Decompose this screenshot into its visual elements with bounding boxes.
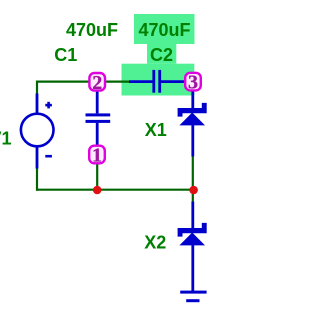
wire left vertical upper (top rail corner down to V1 lead): [36, 81, 38, 95]
C1 top lead: [96, 91, 99, 113]
V1 minus mark: [45, 155, 52, 158]
wire from right junction down to diode X2: [192, 190, 194, 203]
X2 anode triangle: [179, 233, 205, 246]
V1 circle body: [21, 114, 54, 147]
node 3 bubble: [185, 72, 201, 94]
node 2 bubble: [89, 72, 105, 94]
wire from diode X1 down to right junction: [192, 156, 194, 190]
highlight background for C2 value label: [134, 14, 195, 44]
highlight background for C2 name label: [147, 44, 176, 64]
svg-text:470uF: 470uF: [139, 20, 191, 40]
voltage source V1: [21, 94, 54, 169]
X1 bottom lead: [191, 125, 194, 157]
C2 right lead: [161, 80, 185, 83]
svg-text:1: 1: [92, 145, 102, 167]
wire from node 1 down to bottom rail: [96, 164, 98, 190]
C1 top plate: [86, 113, 111, 116]
V1 plus mark: [45, 104, 52, 107]
svg-text:2: 2: [92, 72, 102, 94]
X2 top lead: [191, 202, 194, 231]
X1 anode triangle: [179, 113, 205, 126]
wire bottom rail: [36, 189, 194, 191]
wire top rail from V1 to node 2: [36, 80, 89, 82]
junction dot left (C1 to bottom rail): [93, 186, 102, 195]
node 1 bubble: [89, 145, 105, 167]
C2 left lead: [129, 80, 153, 83]
wire left vertical lower (V1 lead down to bottom rail): [36, 168, 38, 191]
C1 bottom plate: [86, 120, 111, 123]
capacitor C1: [86, 91, 111, 146]
junction dot right (X1/X2 to bottom rail): [189, 186, 198, 195]
svg-text:3: 3: [188, 72, 198, 94]
diode X1 (zener): [178, 91, 207, 157]
ground top bar: [180, 291, 206, 294]
svg-text:X1: X1: [145, 120, 167, 140]
C2 left plate: [152, 70, 155, 93]
X1 cathode bar with bent ends: [178, 103, 207, 117]
V1 top lead: [36, 94, 39, 114]
X2 bottom lead: [191, 245, 194, 292]
C1 bottom lead: [96, 123, 99, 146]
X1 top lead: [191, 91, 194, 110]
ground symbol: [180, 291, 206, 303]
svg-text:470uF: 470uF: [66, 20, 118, 40]
X2 cathode bar with bent ends: [178, 223, 207, 237]
svg-text:X2: X2: [144, 233, 166, 253]
svg-text:C1: C1: [54, 45, 77, 65]
diode X2 (zener): [178, 202, 207, 292]
ground bottom bar: [186, 299, 199, 302]
svg-text:V1: V1: [0, 128, 12, 148]
svg-text:C2: C2: [150, 45, 173, 65]
wire from node 2 to capacitor C2: [106, 80, 130, 82]
V1 bottom lead: [36, 147, 39, 169]
C2 right plate: [158, 70, 161, 93]
highlight background for capacitor C2 body: [122, 64, 195, 96]
capacitor C2: [129, 70, 185, 93]
